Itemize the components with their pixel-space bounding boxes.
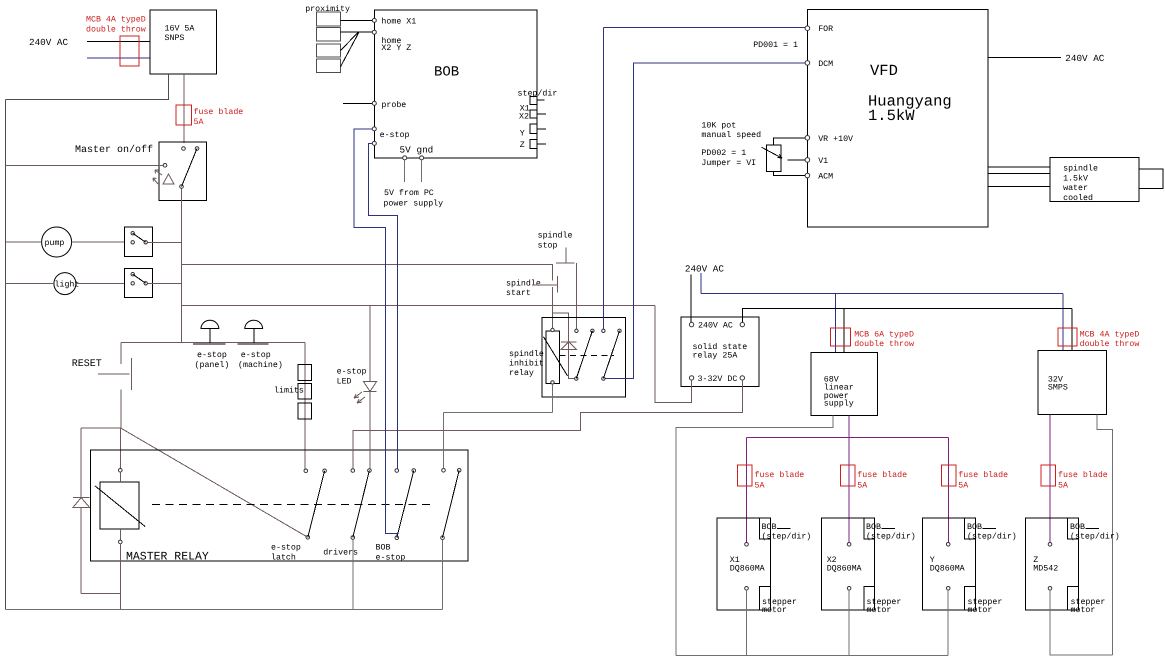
SW3 blade [133, 274, 146, 283]
RESET PB3 plunger bar [130, 358, 132, 390]
SW2 terminal top [131, 232, 134, 235]
spindle motor M3 body [1050, 157, 1139, 201]
wire SSR switched live rail [742, 309, 1072, 323]
svg-text:motor: motor [867, 606, 892, 615]
wire U4 return to bus [947, 590, 949, 655]
SW2 blade [133, 233, 146, 242]
svg-text:probe: probe [381, 100, 406, 110]
svg-text:fuse blade: fuse blade [755, 470, 805, 480]
svg-text:motor: motor [1071, 606, 1096, 615]
wire 240V neutral blue rail [701, 292, 1063, 294]
K2 gang dashed link [559, 355, 614, 357]
power supply PS2 68V linear body [811, 353, 878, 416]
U2 BOB label underline [777, 528, 791, 530]
limit switch LS1 [298, 364, 312, 380]
wire 240V neutral to SNPS [87, 57, 150, 59]
MCB CB3 4A body [1058, 328, 1077, 346]
svg-text:BOB: BOB [376, 544, 391, 553]
K1 spare contact blade seat [457, 469, 461, 473]
U1 connector Y stub [537, 128, 546, 130]
wire U3 return to bus [848, 590, 850, 655]
K1 latch contact bottom terminal [306, 536, 310, 540]
wire wiper to V1 [787, 159, 805, 161]
svg-text:5A: 5A [1058, 482, 1068, 491]
U6 terminal FOR [805, 26, 810, 31]
svg-text:MCB 4A typeD: MCB 4A typeD [86, 16, 146, 25]
wire S1 to home X1 [341, 19, 373, 21]
wire switched live drop to 68V supply [843, 309, 845, 353]
e-stop PB2 NC bar [238, 343, 269, 345]
switch SW1 body [159, 142, 207, 201]
wire gnd stub [421, 160, 423, 182]
K2 latch blade [576, 331, 592, 379]
svg-text:DCM: DCM [818, 60, 833, 69]
svg-text:fuse blade: fuse blade [857, 470, 907, 480]
svg-text:BOB: BOB [1070, 523, 1085, 532]
wire 68V+ to X1 driver [746, 437, 748, 542]
K1 drivers contact blade seat [368, 469, 372, 473]
wire VFD DCM blue from contact [605, 63, 805, 379]
wire U5 return to 32V return [1050, 590, 1112, 655]
K1 BOB e-stop blade [397, 471, 414, 538]
svg-text:X2: X2 [519, 113, 529, 122]
SW1 actuator icon [153, 170, 174, 184]
wire stop button to spindle relay coil branch [552, 264, 554, 280]
wire blue drop to 32V SMPS [1062, 293, 1064, 350]
K2 coil bottom terminal [551, 381, 554, 384]
wire 240V live to SSR [690, 275, 692, 323]
svg-text:double throw: double throw [86, 25, 146, 35]
svg-text:start: start [506, 289, 531, 298]
svg-text:Z: Z [520, 141, 525, 150]
wire e-stop chain rail [121, 342, 305, 344]
svg-text:motor: motor [762, 606, 787, 615]
K1 drivers contact fixed terminal [351, 469, 355, 473]
svg-text:VFD: VFD [870, 62, 898, 80]
svg-text:240V AC: 240V AC [29, 37, 68, 48]
svg-text:(step/dir): (step/dir) [1070, 532, 1120, 542]
svg-text:MCB 6A typeD: MCB 6A typeD [854, 331, 914, 340]
spindle start PB5 stub [532, 284, 557, 286]
svg-text:e-stop: e-stop [271, 544, 301, 553]
wire probe stub [343, 102, 372, 104]
spindle stop PB4 stem [565, 248, 567, 263]
K2 VFD contact bottom terminal [602, 377, 605, 380]
wire SSR1 DC- to K1 drivers contact [353, 380, 743, 469]
wire chain down to RESET button upper [120, 343, 122, 364]
diode D3 triangle [561, 342, 577, 350]
stepper driver U2 X1 DQ860MA body [717, 518, 770, 610]
wire 5V stub [404, 160, 406, 182]
svg-text:1.5kV: 1.5kV [1063, 173, 1088, 183]
lamp M2 light [54, 273, 76, 295]
wire 68V return [676, 416, 833, 656]
relay K2 spindle inhibit body [542, 317, 626, 397]
U5 BOB label underline [1086, 528, 1100, 530]
diode D1 cathode bar [73, 497, 90, 499]
svg-text:stop: stop [538, 241, 558, 250]
wire K2 coil bottom exits relay [552, 384, 554, 413]
R1 wiper arrow [762, 147, 782, 158]
U3 bottom-right notch [864, 587, 875, 611]
wire SW1 output down to loads [181, 188, 183, 342]
wire rail to solid state relay input [182, 305, 656, 307]
wire 68V+ distribution rail [747, 436, 949, 438]
e-stop PB1 mushroom head [201, 320, 219, 328]
wire BOB e-stop B blue [369, 143, 398, 468]
U1 terminal e-stop A [372, 127, 376, 131]
U3 BOB label underline [882, 528, 896, 530]
wire left bus to pump [6, 241, 42, 243]
svg-text:relay: relay [509, 368, 534, 378]
K1 BOB e-stop contact fixed terminal [395, 469, 399, 473]
SW2 terminal left [131, 241, 134, 244]
wire RESET button lower [120, 390, 122, 429]
K1 BOB e-stop contact bottom terminal [395, 536, 399, 540]
wire pot bottom to ACM [774, 172, 806, 176]
K1 coil bottom stub [119, 529, 121, 540]
svg-text:RESET: RESET [72, 359, 102, 370]
U1 connector X1 [530, 96, 537, 104]
wire to relay K1 coil top [119, 428, 121, 468]
wire diode branch upper [80, 428, 82, 498]
svg-text:spindle: spindle [509, 349, 544, 359]
svg-text:10K pot: 10K pot [701, 121, 736, 130]
svg-text:(panel): (panel) [195, 360, 230, 370]
e-stop PB1 NC bar [193, 343, 226, 345]
wire VFD to spindle phase W [988, 185, 1050, 187]
K2 latch contact fixed terminal [575, 329, 578, 332]
wire pump to switch SW2 [72, 241, 125, 243]
stepper driver U5 Z MD542 body [1026, 518, 1079, 610]
svg-text:double throw: double throw [854, 339, 914, 349]
svg-text:inhibit: inhibit [509, 359, 544, 369]
U1 connector X2 stub [537, 113, 546, 115]
svg-text:e-stop: e-stop [241, 351, 271, 360]
LED D2 triangle [364, 382, 377, 392]
svg-text:gnd: gnd [417, 145, 434, 156]
e-stop PB2 mushroom head [245, 320, 263, 328]
K1 drivers contact bottom terminal [351, 536, 355, 540]
svg-text:fuse blade: fuse blade [194, 107, 244, 117]
svg-text:5A: 5A [194, 118, 204, 127]
LED D2 emission arrows [354, 392, 365, 403]
wire bottom return bus [6, 609, 443, 611]
svg-text:supply: supply [824, 399, 854, 409]
SW1 terminal top in [182, 147, 186, 151]
wire SNPS 16V out through fuse F0 [183, 74, 185, 143]
svg-text:e-stop: e-stop [197, 351, 227, 360]
SW3 terminal right [144, 282, 147, 285]
wire diode branch to coil return [81, 593, 120, 595]
fuse F0 blade 5A body [176, 105, 192, 125]
MCB CB2 6A body [830, 328, 850, 346]
wire 68V+ to X2 driver [848, 416, 850, 543]
K1 gang dashed link [152, 504, 433, 506]
svg-text:ACM: ACM [818, 173, 833, 182]
spindle start PB5 plunger bar [556, 276, 558, 292]
wire pot top to VR [774, 138, 806, 145]
U6 terminal VR +10V [805, 136, 810, 141]
K1 coil bottom terminal [119, 540, 123, 544]
wire SNPS 0V return to left bus [6, 74, 169, 100]
breakout board U1 BOB body [374, 10, 537, 158]
wire VFD FOR blue horizontal [603, 27, 805, 29]
SW1 terminal left [163, 164, 167, 168]
switch SW3 light switch body [125, 269, 153, 298]
svg-text:5V from PC: 5V from PC [384, 188, 434, 198]
svg-text:spindle: spindle [1063, 164, 1098, 174]
SW1 terminal bottom [180, 185, 184, 189]
U4 bottom-right notch [965, 587, 976, 611]
K1 latch contact blade seat [323, 469, 327, 473]
svg-text:cooled: cooled [1063, 193, 1093, 203]
svg-text:(step/dir): (step/dir) [762, 532, 812, 542]
K1 spare contact fixed terminal [442, 469, 446, 473]
U1 connector Y [530, 124, 537, 134]
svg-text:VR +10V: VR +10V [818, 135, 853, 144]
svg-text:Master on/off: Master on/off [75, 144, 153, 156]
K2 latch contact bottom terminal [575, 377, 578, 380]
U5 top-right notch [1068, 518, 1079, 539]
MCB CB1 breaker body [120, 36, 139, 66]
svg-text:water: water [1063, 184, 1088, 193]
SW3 terminal top [131, 273, 134, 276]
wire coil branch to latch bottom [553, 313, 575, 378]
U2 bottom-right notch [760, 587, 771, 611]
K1 coil box [100, 482, 139, 529]
U1 connector Z [530, 139, 537, 148]
svg-text:fuse blade: fuse blade [958, 470, 1008, 480]
power supply PS1 16V 5A SNPS [150, 10, 217, 74]
K1 latch contact fixed terminal [304, 469, 308, 473]
wire rail to LED anode [369, 306, 371, 382]
svg-text:BOB: BOB [866, 523, 881, 532]
svg-text:e-stop: e-stop [337, 368, 367, 377]
switch SW2 pump switch body [125, 227, 153, 257]
svg-text:(step/dir): (step/dir) [967, 532, 1017, 542]
K2 coil slash [544, 337, 568, 376]
wire switched live drop to 32V SMPS [1071, 309, 1073, 351]
svg-text:240V AC: 240V AC [698, 322, 733, 331]
svg-text:relay 25A: relay 25A [693, 350, 738, 360]
K1 latch blade [308, 471, 325, 538]
wire S3 diagonal to home node [341, 32, 359, 50]
U1 connector X1 stub [537, 99, 544, 101]
U1 connector X2 [530, 110, 537, 118]
power supply PS3 32V SMPS body [1038, 351, 1107, 415]
svg-text:fuse blade: fuse blade [1058, 470, 1108, 480]
svg-text:(machine): (machine) [238, 360, 283, 370]
svg-text:FOR: FOR [818, 25, 833, 34]
U1 terminal e-stop B [372, 141, 376, 145]
svg-text:X2 Y Z: X2 Y Z [381, 44, 411, 53]
svg-text:power supply: power supply [383, 199, 443, 209]
lamp M1 pump [42, 227, 72, 257]
U4 top-right notch [965, 518, 976, 539]
fuse F4 blade 5A body [1041, 465, 1056, 486]
wire S2 to home X2 [341, 31, 373, 33]
proximity sensor S2 [317, 27, 341, 41]
wire S4 diagonal to home node [341, 33, 359, 67]
U3 supply terminal [847, 543, 851, 547]
RESET PB3 stub [98, 373, 130, 375]
K1 spare blade [443, 470, 460, 537]
e-stop PB2 stem [253, 329, 255, 344]
svg-text:V1: V1 [818, 157, 828, 166]
VFD U6 body [807, 10, 988, 228]
spindle stop PB4 NC bar [556, 262, 574, 264]
U2 return terminal [745, 587, 749, 591]
svg-text:BOB: BOB [762, 523, 777, 532]
svg-text:e-stop: e-stop [376, 554, 406, 563]
wire LED cathode to K1 drivers blade seat [369, 392, 371, 469]
svg-text:light: light [55, 279, 80, 289]
svg-text:PD002 = 1: PD002 = 1 [701, 149, 746, 158]
K1 coil slash [95, 486, 145, 527]
svg-text:(step/dir): (step/dir) [866, 532, 916, 542]
U6 terminal ACM [805, 173, 810, 178]
wire blue drop to 68V supply [835, 293, 837, 352]
wire U2 return to bus [746, 590, 748, 655]
svg-text:240V AC: 240V AC [1065, 53, 1104, 64]
U1 terminal 5V [403, 156, 407, 160]
svg-text:3-32V DC: 3-32V DC [698, 375, 738, 384]
svg-text:BOB: BOB [967, 523, 982, 532]
svg-text:drivers: drivers [323, 548, 358, 558]
svg-text:SMPS: SMPS [1048, 384, 1068, 393]
SW1 blade [182, 149, 198, 187]
svg-text:5A: 5A [755, 482, 765, 491]
proximity sensor S3 [317, 44, 341, 57]
svg-text:PD001 = 1: PD001 = 1 [753, 41, 798, 50]
wire SW2 to master feed [148, 241, 182, 243]
svg-text:spindle: spindle [538, 231, 573, 241]
svg-text:double throw: double throw [1080, 339, 1140, 349]
U6 terminal DCM [805, 61, 810, 66]
wire 32V return [1097, 415, 1112, 655]
wire driver return bus [676, 654, 948, 656]
U4 supply terminal [946, 543, 950, 547]
K2 VFD contact fixed terminal [602, 329, 605, 332]
U6 terminal V1 [805, 158, 810, 163]
wire stop button output down to latch contact [575, 263, 577, 329]
U1 terminal probe [372, 101, 376, 105]
wire left vertical bus [5, 100, 7, 610]
wire junction to flyback diode branch [81, 427, 121, 429]
svg-text:240V AC: 240V AC [685, 264, 724, 275]
wire 68V+ to Y driver [947, 437, 949, 542]
U1 terminal home X1 [372, 18, 376, 22]
svg-text:1.5kW: 1.5kW [868, 107, 915, 125]
wire SSR1 DC+ to rail [655, 306, 692, 403]
svg-text:DQ860MA: DQ860MA [730, 564, 765, 573]
svg-text:spindle: spindle [506, 279, 541, 289]
wire 32V+ to Z driver [1049, 415, 1051, 543]
wire latch diagonal to K1 latch contact [121, 428, 308, 537]
wire SW3 to master feed [148, 282, 182, 284]
K2 VFD blade [603, 331, 619, 379]
wire light to switch SW3 [76, 282, 125, 284]
U5 bottom-right notch [1068, 587, 1079, 611]
wire 240V live to SNPS [87, 41, 150, 43]
wire K1 coil bottom to bottom bus [119, 544, 121, 610]
svg-text:SNPS: SNPS [165, 34, 185, 43]
limit switch LS2 [298, 383, 312, 399]
SW1 terminal top blade seat [195, 147, 199, 151]
wire SW1 left terminal to left bus [6, 164, 164, 166]
U2 top-right notch [760, 518, 771, 539]
U5 supply terminal [1048, 543, 1052, 547]
wire chain corner down through limits to K1 [304, 343, 306, 469]
solid state relay SSR1 body [681, 317, 759, 386]
e-stop PB1 stem [209, 329, 211, 344]
U5 return terminal [1048, 587, 1052, 591]
U3 return terminal [847, 587, 851, 591]
svg-text:LED: LED [337, 378, 352, 387]
K2 latch contact blade seat [591, 329, 594, 332]
svg-text:5A: 5A [958, 482, 968, 491]
K1 drivers blade [353, 471, 370, 538]
K1 spare contact bottom terminal [441, 536, 445, 540]
svg-text:limits: limits [274, 386, 304, 396]
LED D2 cathode bar [364, 391, 377, 393]
U1 connector Z stub [537, 143, 546, 145]
svg-text:Y: Y [520, 129, 525, 138]
K1 coil top terminal [119, 469, 123, 473]
diode D3 cathode bar [561, 341, 577, 343]
svg-text:MASTER RELAY: MASTER RELAY [126, 551, 209, 564]
wire spare contact bottom to bottom bus [442, 540, 444, 610]
svg-text:motor: motor [968, 606, 993, 615]
SSR1 terminal DC- [740, 376, 744, 380]
svg-text:DQ860MA: DQ860MA [827, 564, 862, 573]
wire 240V neutral blue drop [700, 273, 702, 293]
svg-text:home X1: home X1 [381, 17, 416, 27]
wire VFD FOR blue vertical [602, 28, 604, 330]
K1 BOB e-stop contact blade seat [412, 469, 416, 473]
fuse F3 blade 5A body [941, 465, 956, 486]
SSR1 terminal 240V N [740, 322, 744, 326]
svg-text:Jumper = VI: Jumper = VI [701, 159, 756, 168]
proximity sensor S4 [317, 59, 341, 73]
wire VFD to spindle phase U [988, 166, 1050, 168]
U1 terminal home X2 Y Z [372, 30, 376, 34]
svg-text:5A: 5A [857, 482, 867, 491]
svg-text:manual speed: manual speed [701, 130, 761, 140]
wire rail to spindle stop button [182, 263, 554, 265]
K2 VFD contact blade seat [618, 329, 621, 332]
spindle shaft stub [1139, 169, 1163, 189]
wire VFD to 240V AC [988, 57, 1061, 59]
svg-text:5V: 5V [400, 145, 412, 156]
K1 coil top stub [119, 472, 121, 482]
K2 coil top terminal [551, 328, 554, 331]
U4 BOB label underline [983, 528, 997, 530]
diode D1 triangle [73, 498, 90, 508]
svg-text:16V 5A: 16V 5A [165, 25, 195, 34]
SSR1 terminal 240V L [689, 322, 693, 326]
svg-text:latch: latch [271, 553, 296, 563]
wire VFD to spindle phase V [988, 172, 1050, 174]
svg-text:e-stop: e-stop [380, 131, 410, 140]
SSR1 terminal DC+ [689, 376, 693, 380]
U3 top-right notch [864, 518, 875, 539]
SW2 terminal right [144, 241, 147, 244]
wire start button lower to coil [552, 287, 554, 328]
wire diode branch lower [80, 507, 82, 593]
potentiometer R1 body [767, 145, 781, 171]
